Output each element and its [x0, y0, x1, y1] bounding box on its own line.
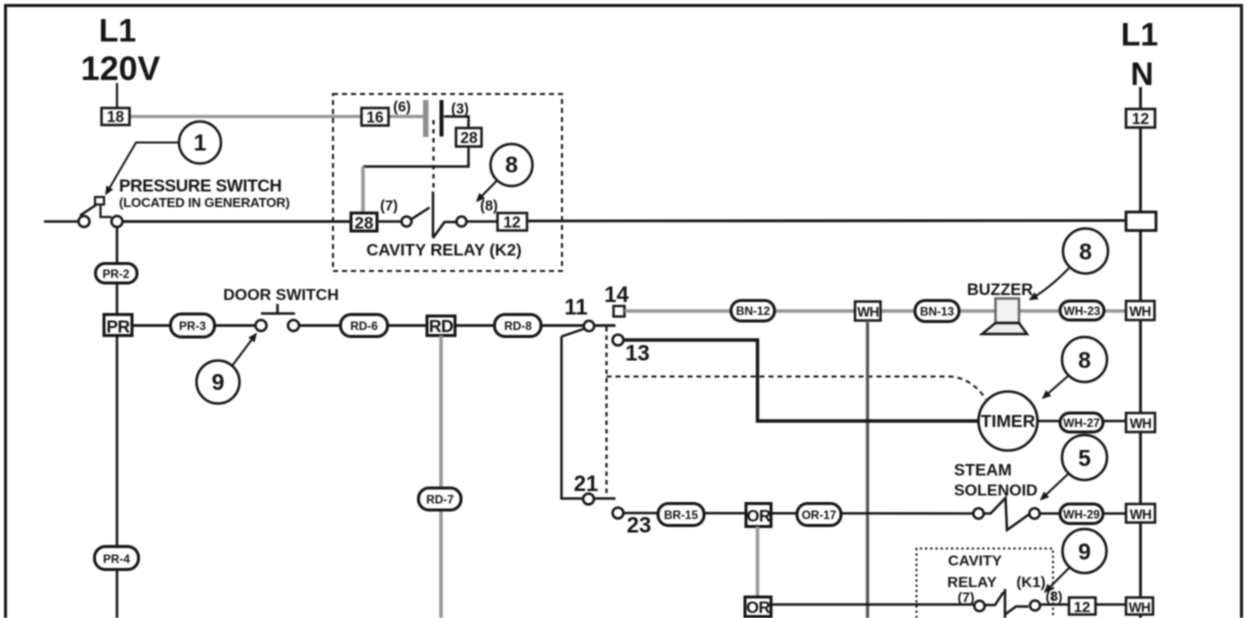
svg-text:CAVITY RELAY (K2): CAVITY RELAY (K2) [366, 241, 521, 260]
svg-text:PR: PR [106, 317, 130, 337]
svg-text:13: 13 [625, 341, 649, 366]
svg-text:STEAM: STEAM [954, 462, 1012, 480]
svg-text:23: 23 [627, 513, 651, 538]
svg-text:WH: WH [1130, 507, 1152, 522]
svg-text:PR-4: PR-4 [103, 552, 130, 566]
svg-text:WH: WH [1129, 600, 1151, 615]
svg-text:OR: OR [746, 599, 770, 617]
svg-text:8: 8 [1078, 347, 1091, 373]
svg-text:CAVITY: CAVITY [948, 553, 1002, 570]
svg-text:WH: WH [1129, 304, 1151, 319]
svg-text:120V: 120V [81, 50, 161, 88]
svg-text:OR-17: OR-17 [802, 508, 837, 522]
svg-text:18: 18 [107, 109, 125, 126]
svg-text:28: 28 [355, 214, 374, 233]
svg-text:9: 9 [212, 369, 225, 395]
svg-text:(3): (3) [451, 102, 469, 118]
svg-text:OR: OR [747, 508, 771, 526]
svg-text:(8): (8) [480, 199, 498, 215]
svg-text:(7): (7) [957, 589, 974, 605]
svg-text:SOLENOID: SOLENOID [954, 483, 1038, 500]
svg-text:N: N [1130, 56, 1153, 92]
svg-text:16: 16 [366, 110, 384, 127]
svg-text:28: 28 [460, 130, 478, 147]
svg-text:12: 12 [1132, 111, 1149, 128]
svg-text:L1: L1 [1121, 17, 1158, 53]
svg-text:PRESSURE SWITCH: PRESSURE SWITCH [119, 176, 282, 196]
svg-text:WH-23: WH-23 [1064, 304, 1101, 318]
svg-text:TIMER: TIMER [981, 411, 1036, 431]
svg-text:21: 21 [574, 471, 598, 496]
svg-text:12: 12 [503, 215, 520, 232]
svg-text:8: 8 [1079, 239, 1092, 265]
svg-text:L1: L1 [99, 13, 136, 49]
svg-text:(7): (7) [380, 199, 398, 215]
svg-text:5: 5 [1078, 445, 1091, 471]
svg-text:WH-29: WH-29 [1063, 508, 1100, 522]
svg-text:PR-3: PR-3 [179, 319, 206, 333]
svg-text:WH: WH [1130, 416, 1152, 431]
svg-text:RD-7: RD-7 [426, 493, 454, 507]
svg-text:(LOCATED IN GENERATOR): (LOCATED IN GENERATOR) [119, 195, 290, 210]
svg-text:(6): (6) [393, 100, 411, 116]
svg-text:RD: RD [429, 316, 453, 336]
svg-text:8: 8 [505, 152, 518, 178]
svg-text:1: 1 [194, 130, 207, 156]
svg-text:11: 11 [564, 295, 587, 320]
svg-text:DOOR SWITCH: DOOR SWITCH [223, 287, 339, 304]
svg-text:14: 14 [604, 282, 629, 307]
svg-text:9: 9 [1078, 539, 1091, 565]
svg-text:WH: WH [857, 305, 879, 320]
svg-text:(K1): (K1) [1016, 574, 1045, 591]
svg-text:12: 12 [1074, 599, 1091, 616]
svg-text:BN-12: BN-12 [736, 304, 771, 318]
svg-text:PR-2: PR-2 [103, 267, 130, 281]
svg-text:BN-13: BN-13 [920, 305, 955, 319]
svg-text:RD-6: RD-6 [350, 319, 378, 333]
svg-text:RD-8: RD-8 [504, 319, 532, 333]
svg-text:WH-27: WH-27 [1063, 416, 1100, 430]
svg-text:BUZZER: BUZZER [967, 281, 1033, 299]
svg-text:BR-15: BR-15 [664, 508, 699, 522]
